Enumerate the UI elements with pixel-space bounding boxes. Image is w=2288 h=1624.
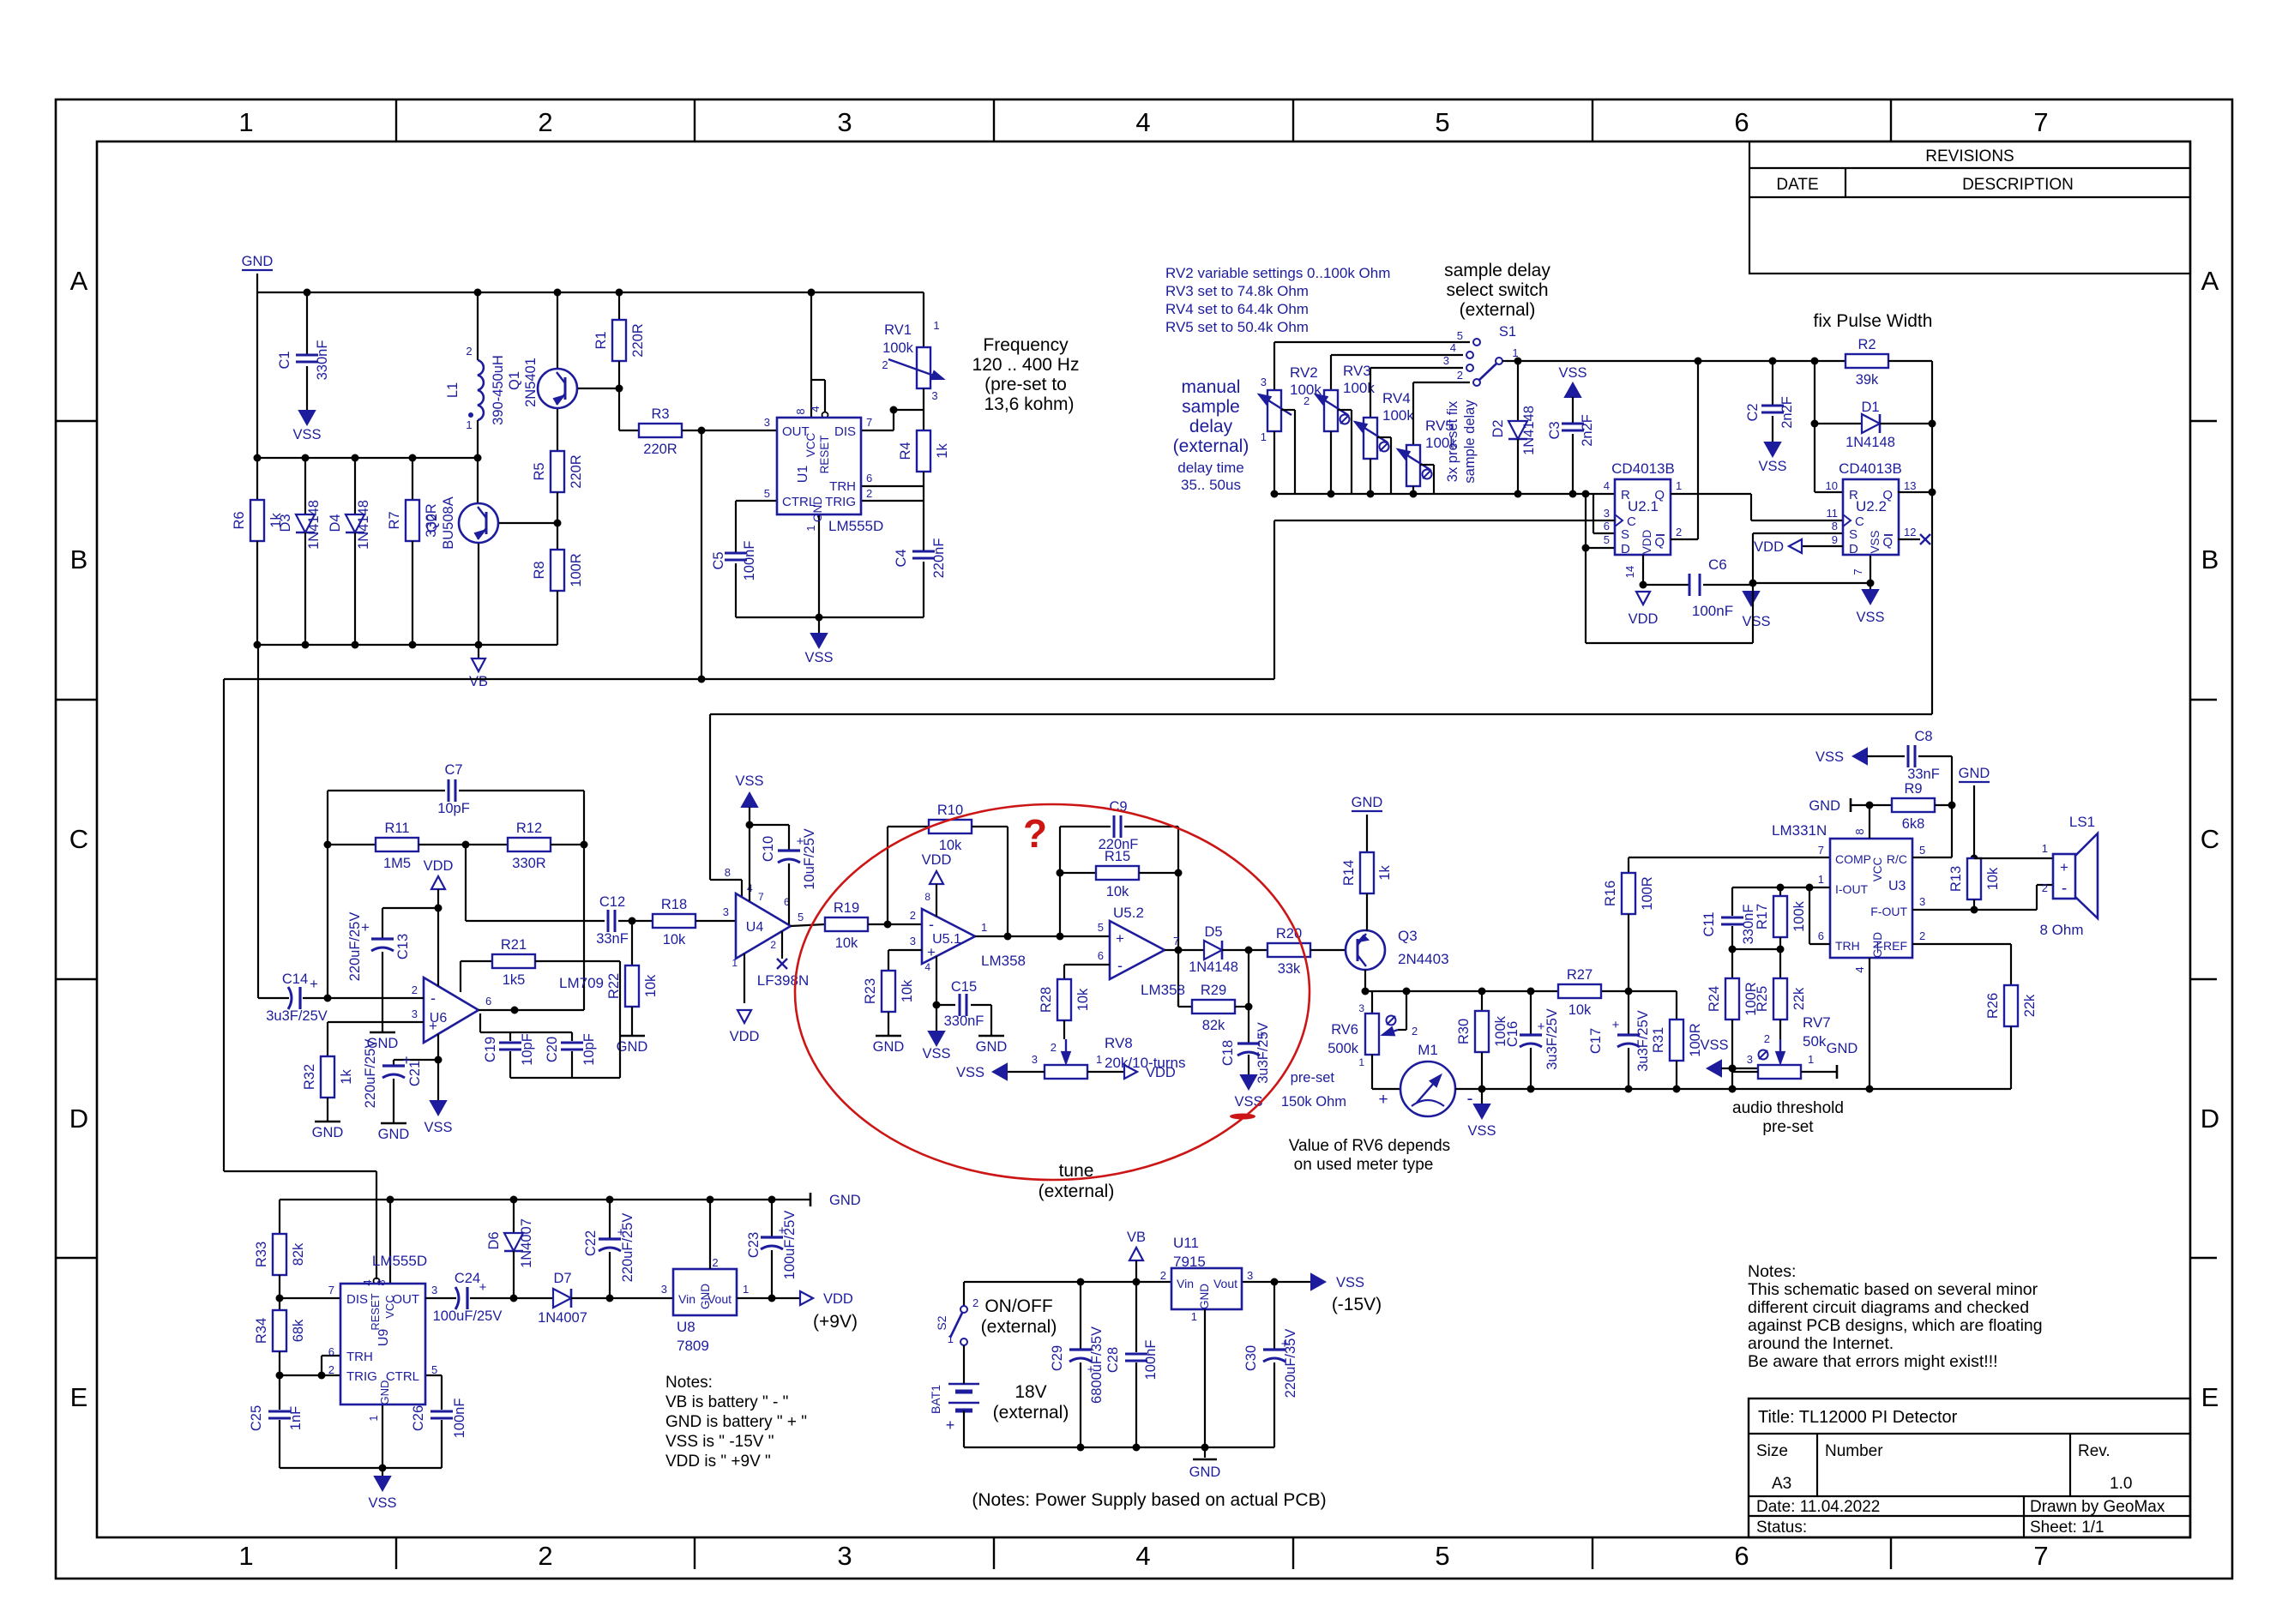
svg-text:7: 7 xyxy=(1851,568,1864,574)
svg-text:D3: D3 xyxy=(278,514,293,532)
svg-text:C13: C13 xyxy=(395,934,411,959)
svg-text:2: 2 xyxy=(1304,394,1310,407)
svg-text:U3: U3 xyxy=(1888,879,1906,893)
svg-text:10k: 10k xyxy=(663,932,686,947)
svg-text:Notes:: Notes: xyxy=(665,1374,713,1392)
svg-text:DATE: DATE xyxy=(1776,176,1818,194)
svg-text:Vin: Vin xyxy=(1177,1277,1194,1290)
svg-text:+: + xyxy=(797,834,804,849)
svg-text:2: 2 xyxy=(770,939,776,951)
svg-text:LM555D: LM555D xyxy=(828,518,883,534)
svg-text:6: 6 xyxy=(1604,520,1610,532)
svg-text:LM331N: LM331N xyxy=(1772,822,1827,839)
svg-text:1: 1 xyxy=(1358,1056,1364,1068)
svg-text:R8: R8 xyxy=(532,561,547,579)
svg-text:4: 4 xyxy=(1450,341,1456,354)
svg-text:5: 5 xyxy=(1604,533,1610,546)
svg-text:Q1: Q1 xyxy=(507,371,522,390)
svg-text:7: 7 xyxy=(1173,935,1179,947)
svg-text:D: D xyxy=(2201,1104,2219,1134)
svg-text:U8: U8 xyxy=(677,1319,695,1335)
svg-text:R16: R16 xyxy=(1603,881,1618,906)
svg-text:D2: D2 xyxy=(1490,419,1506,437)
svg-text:D4: D4 xyxy=(328,514,343,532)
svg-text:VSS: VSS xyxy=(956,1065,984,1080)
svg-text:Date: 11.04.2022: Date: 11.04.2022 xyxy=(1756,1498,1880,1516)
svg-text:GND: GND xyxy=(617,1039,648,1055)
svg-text:LF398N: LF398N xyxy=(757,972,809,989)
svg-text:6800uF/35V: 6800uF/35V xyxy=(1089,1326,1105,1404)
svg-text:CD4013B: CD4013B xyxy=(1839,460,1902,477)
svg-text:LS1: LS1 xyxy=(2069,814,2095,830)
svg-text:3: 3 xyxy=(1261,376,1267,388)
svg-text:2: 2 xyxy=(1457,369,1463,382)
svg-text:5: 5 xyxy=(764,487,770,500)
svg-text:22k: 22k xyxy=(2022,994,2038,1017)
svg-text:330R: 330R xyxy=(512,856,546,871)
svg-text:(-15V): (-15V) xyxy=(1332,1295,1382,1314)
svg-text:R26: R26 xyxy=(1985,993,2001,1019)
svg-text:-: - xyxy=(1117,957,1123,974)
svg-text:VSS: VSS xyxy=(1856,610,1884,625)
svg-text:7: 7 xyxy=(758,891,764,903)
svg-text:R33: R33 xyxy=(254,1242,269,1267)
svg-text:4: 4 xyxy=(1135,1541,1150,1571)
svg-text:U5.1: U5.1 xyxy=(932,932,961,947)
svg-text:U9: U9 xyxy=(376,1329,391,1347)
svg-text:I-REF: I-REF xyxy=(1876,939,1907,953)
svg-text:VDD: VDD xyxy=(1629,611,1659,627)
svg-text:(+9V): (+9V) xyxy=(813,1312,858,1332)
svg-text:pre-set: pre-set xyxy=(1291,1070,1335,1086)
svg-text:C: C xyxy=(2201,824,2219,854)
svg-text:LM358: LM358 xyxy=(981,953,1026,969)
svg-text:D1: D1 xyxy=(1861,400,1879,415)
svg-text:GND: GND xyxy=(378,1127,410,1142)
svg-text:9: 9 xyxy=(1832,533,1838,546)
svg-text:6: 6 xyxy=(866,472,872,484)
svg-text:Status:: Status: xyxy=(1756,1519,1807,1537)
svg-text:5: 5 xyxy=(1098,921,1104,934)
svg-text:GND is battery " + ": GND is battery " + " xyxy=(665,1413,807,1431)
svg-text:R14: R14 xyxy=(1341,860,1357,886)
svg-text:2: 2 xyxy=(412,983,418,996)
svg-text:100R: 100R xyxy=(1640,876,1655,911)
svg-text:D: D xyxy=(1621,542,1630,556)
svg-text:1: 1 xyxy=(743,1283,749,1296)
svg-text:C16: C16 xyxy=(1505,1021,1520,1047)
svg-text:100k: 100k xyxy=(882,340,914,356)
svg-text:C11: C11 xyxy=(1701,911,1717,936)
svg-text:VSS: VSS xyxy=(1558,365,1587,381)
svg-text:GND: GND xyxy=(378,1380,391,1405)
svg-text:6: 6 xyxy=(485,995,491,1007)
svg-text:7: 7 xyxy=(328,1284,334,1296)
svg-text:A3: A3 xyxy=(1772,1475,1791,1493)
svg-text:R30: R30 xyxy=(1456,1019,1472,1044)
svg-text:(external): (external) xyxy=(1460,300,1536,320)
svg-text:This schematic based on severa: This schematic based on several minor xyxy=(1748,1280,2038,1299)
svg-text:11: 11 xyxy=(1827,507,1839,520)
svg-text:C26: C26 xyxy=(411,1405,426,1431)
svg-text:13,6 kohm): 13,6 kohm) xyxy=(984,394,1074,414)
svg-text:6: 6 xyxy=(1818,929,1824,942)
svg-text:7: 7 xyxy=(1818,844,1824,857)
svg-text:33nF: 33nF xyxy=(596,931,629,947)
svg-text:C6: C6 xyxy=(1708,556,1727,573)
svg-text:(external): (external) xyxy=(993,1403,1069,1423)
svg-text:8: 8 xyxy=(1832,520,1838,532)
svg-text:1: 1 xyxy=(1818,873,1824,886)
svg-text:VSS: VSS xyxy=(1467,1123,1496,1139)
svg-text:1k: 1k xyxy=(339,1069,354,1085)
svg-text:+: + xyxy=(1612,1018,1620,1032)
svg-text:C20: C20 xyxy=(545,1037,560,1062)
svg-text:220R: 220R xyxy=(630,323,646,358)
svg-text:2N5401: 2N5401 xyxy=(523,358,539,407)
svg-text:2N4403: 2N4403 xyxy=(1398,951,1449,967)
svg-text:COMP: COMP xyxy=(1835,852,1871,866)
svg-text:4: 4 xyxy=(1135,107,1150,137)
svg-text:VSS is " -15V ": VSS is " -15V " xyxy=(665,1433,774,1451)
svg-text:-: - xyxy=(929,916,934,933)
svg-text:R7: R7 xyxy=(387,511,402,529)
svg-text:C23: C23 xyxy=(746,1232,762,1258)
svg-text:+: + xyxy=(946,1416,955,1434)
svg-text:R9: R9 xyxy=(1904,781,1922,797)
svg-text:3: 3 xyxy=(764,416,770,429)
svg-text:7: 7 xyxy=(866,416,872,429)
svg-text:VSS: VSS xyxy=(1336,1275,1364,1290)
svg-text:10pF: 10pF xyxy=(437,801,470,816)
svg-text:1: 1 xyxy=(1676,479,1682,492)
svg-text:-: - xyxy=(1467,1089,1473,1109)
svg-text:VDD is " +9V ": VDD is " +9V " xyxy=(665,1453,771,1471)
svg-text:?: ? xyxy=(1023,811,1047,856)
svg-text:R15: R15 xyxy=(1105,849,1130,864)
svg-text:VSS: VSS xyxy=(1758,459,1786,474)
svg-text:1: 1 xyxy=(804,525,817,531)
svg-text:R34: R34 xyxy=(254,1318,269,1344)
svg-text:6k8: 6k8 xyxy=(1902,816,1925,832)
svg-text:I-OUT: I-OUT xyxy=(1835,882,1869,896)
svg-text:3: 3 xyxy=(931,389,937,402)
svg-text:(external): (external) xyxy=(1173,436,1249,456)
svg-text:82k: 82k xyxy=(1202,1018,1225,1033)
svg-text:VSS: VSS xyxy=(1815,749,1844,765)
svg-text:1: 1 xyxy=(981,921,987,934)
svg-text:3: 3 xyxy=(1358,1002,1364,1014)
svg-text:VSS: VSS xyxy=(368,1495,396,1511)
svg-text:22k: 22k xyxy=(1791,987,1807,1010)
svg-text:VDD: VDD xyxy=(922,852,952,868)
svg-text:3: 3 xyxy=(661,1283,667,1296)
svg-text:2: 2 xyxy=(1412,1025,1418,1038)
svg-text:100nF: 100nF xyxy=(742,541,757,581)
svg-text:LM358: LM358 xyxy=(1141,982,1185,998)
svg-text:delay: delay xyxy=(1189,417,1233,436)
svg-text:1: 1 xyxy=(238,107,253,137)
svg-text:TRH: TRH xyxy=(829,479,856,494)
svg-text:S1: S1 xyxy=(1499,324,1516,340)
svg-text:U11: U11 xyxy=(1173,1235,1199,1251)
svg-text:14: 14 xyxy=(1623,566,1636,578)
svg-text:TRIG: TRIG xyxy=(825,495,856,509)
svg-text:330R: 330R xyxy=(424,503,439,538)
svg-text:S: S xyxy=(1849,527,1857,542)
svg-text:R5: R5 xyxy=(532,462,547,480)
svg-text:R24: R24 xyxy=(1707,986,1722,1012)
svg-text:100R: 100R xyxy=(569,553,584,587)
svg-text:fix Pulse Width: fix Pulse Width xyxy=(1814,311,1933,331)
svg-text:1: 1 xyxy=(1096,1053,1102,1066)
svg-text:100uF/25V: 100uF/25V xyxy=(433,1308,503,1324)
svg-text:-: - xyxy=(431,989,436,1007)
svg-text:7915: 7915 xyxy=(1173,1254,1206,1270)
svg-text:VSS: VSS xyxy=(1700,1038,1728,1053)
svg-text:3: 3 xyxy=(837,107,852,137)
svg-text:Sheet: 1/1: Sheet: 1/1 xyxy=(2030,1519,2104,1537)
svg-text:500k: 500k xyxy=(1328,1041,1359,1056)
svg-text:1M5: 1M5 xyxy=(383,856,411,871)
svg-text:DESCRIPTION: DESCRIPTION xyxy=(1962,176,2074,194)
svg-text:1.0: 1.0 xyxy=(2110,1475,2132,1493)
svg-text:10k: 10k xyxy=(1568,1002,1592,1018)
svg-text:Size: Size xyxy=(1756,1442,1788,1460)
svg-text:U1: U1 xyxy=(796,466,810,484)
svg-text:C7: C7 xyxy=(444,762,462,778)
svg-text:GND: GND xyxy=(242,254,274,269)
svg-text:TRIG: TRIG xyxy=(346,1369,377,1384)
svg-text:RV1: RV1 xyxy=(884,322,912,338)
svg-text:(external): (external) xyxy=(981,1317,1057,1337)
svg-text:5: 5 xyxy=(798,911,804,923)
svg-text:1: 1 xyxy=(1808,1053,1814,1066)
svg-text:C3: C3 xyxy=(1547,421,1562,439)
svg-text:7809: 7809 xyxy=(677,1338,709,1354)
svg-text:1N4148: 1N4148 xyxy=(1845,435,1895,450)
svg-text:D: D xyxy=(69,1104,88,1134)
svg-text:+: + xyxy=(402,1052,411,1068)
svg-text:C17: C17 xyxy=(1588,1028,1604,1054)
svg-text:manual: manual xyxy=(1182,377,1241,397)
svg-text:10k: 10k xyxy=(1106,884,1129,899)
svg-text:B: B xyxy=(2201,544,2219,574)
svg-text:150k Ohm: 150k Ohm xyxy=(1281,1094,1346,1110)
svg-text:3u3F/25V: 3u3F/25V xyxy=(266,1008,328,1024)
svg-text:GND: GND xyxy=(1959,766,1990,781)
svg-text:C12: C12 xyxy=(599,894,625,910)
svg-text:TRH: TRH xyxy=(1835,939,1860,953)
svg-text:R/C: R/C xyxy=(1887,852,1907,866)
svg-text:C8: C8 xyxy=(1914,729,1932,744)
svg-text:2: 2 xyxy=(910,909,916,922)
svg-text:RV3 set to 74.8k Ohm: RV3 set to 74.8k Ohm xyxy=(1165,283,1309,299)
svg-text:Be aware that errors might exi: Be aware that errors might exist!!! xyxy=(1748,1352,1998,1371)
svg-text:LM709: LM709 xyxy=(559,975,604,991)
svg-text:C25: C25 xyxy=(249,1405,264,1431)
svg-text:1: 1 xyxy=(732,957,738,969)
svg-text:3: 3 xyxy=(1443,354,1449,367)
svg-text:-: - xyxy=(2062,880,2067,898)
svg-text:10pF: 10pF xyxy=(581,1033,597,1066)
svg-text:different circuit diagrams and: different circuit diagrams and checked xyxy=(1748,1298,2029,1317)
svg-text:5: 5 xyxy=(1435,1541,1449,1571)
svg-text:R28: R28 xyxy=(1039,987,1054,1013)
svg-text:GND: GND xyxy=(829,1193,861,1208)
svg-text:1N4148: 1N4148 xyxy=(356,500,371,550)
svg-text:Vout: Vout xyxy=(1213,1277,1237,1290)
svg-text:3: 3 xyxy=(431,1284,437,1296)
svg-text:5: 5 xyxy=(1919,844,1925,857)
svg-text:C29: C29 xyxy=(1050,1345,1065,1371)
svg-text:Q3: Q3 xyxy=(1398,928,1418,944)
svg-text:2: 2 xyxy=(328,1363,334,1376)
svg-text:220uF/25V: 220uF/25V xyxy=(347,912,363,982)
svg-text:1: 1 xyxy=(1191,1310,1197,1323)
svg-text:7: 7 xyxy=(2033,1541,2048,1571)
svg-text:33k: 33k xyxy=(1278,961,1301,977)
svg-text:2: 2 xyxy=(712,1256,718,1269)
svg-text:U4: U4 xyxy=(746,920,764,935)
svg-text:1k: 1k xyxy=(1377,865,1393,881)
svg-text:33nF: 33nF xyxy=(1907,767,1940,782)
svg-text:100nF: 100nF xyxy=(452,1398,467,1439)
svg-text:RV4 set to 64.4k Ohm: RV4 set to 64.4k Ohm xyxy=(1165,301,1309,317)
svg-text:VDD: VDD xyxy=(424,858,454,874)
svg-text:D: D xyxy=(1849,542,1858,556)
svg-text:220uF/25V: 220uF/25V xyxy=(363,1039,378,1109)
svg-text:BU508A: BU508A xyxy=(441,496,456,549)
svg-text:C15: C15 xyxy=(951,979,977,995)
svg-text:RV2 variable settings 0..100k: RV2 variable settings 0..100k Ohm xyxy=(1165,265,1390,281)
svg-text:10k: 10k xyxy=(1075,988,1091,1011)
svg-text:TRH: TRH xyxy=(346,1350,373,1364)
svg-text:220uF/35V: 220uF/35V xyxy=(1283,1329,1298,1398)
svg-text:2: 2 xyxy=(882,358,888,371)
svg-text:R2: R2 xyxy=(1857,337,1876,352)
svg-text:1: 1 xyxy=(2042,842,2048,855)
svg-text:3: 3 xyxy=(1247,1269,1253,1282)
svg-text:C30: C30 xyxy=(1243,1345,1259,1371)
svg-text:on used meter type: on used meter type xyxy=(1294,1156,1434,1174)
svg-text:C: C xyxy=(69,824,88,854)
svg-text:10k: 10k xyxy=(835,935,858,951)
svg-text:(Notes: Power Supply based on: (Notes: Power Supply based on actual PCB… xyxy=(972,1490,1326,1510)
svg-text:35.. 50us: 35.. 50us xyxy=(1181,477,1241,493)
svg-text:1: 1 xyxy=(933,319,939,332)
svg-text:GND: GND xyxy=(1198,1284,1211,1309)
svg-text:VB: VB xyxy=(469,674,488,689)
svg-text:VCC: VCC xyxy=(383,1295,396,1318)
svg-text:1N4007: 1N4007 xyxy=(519,1218,534,1268)
svg-text:6: 6 xyxy=(1734,1541,1749,1571)
svg-text:VCC: VCC xyxy=(804,433,817,458)
svg-text:2: 2 xyxy=(1676,526,1682,538)
svg-text:220R: 220R xyxy=(569,454,584,489)
svg-text:RESET: RESET xyxy=(369,1293,382,1330)
svg-text:VSS: VSS xyxy=(1234,1094,1262,1110)
svg-text:2n2F: 2n2F xyxy=(1779,396,1795,429)
svg-text:C14: C14 xyxy=(282,971,308,987)
svg-text:3: 3 xyxy=(1604,507,1610,520)
svg-text:3: 3 xyxy=(723,905,729,918)
svg-text:REVISIONS: REVISIONS xyxy=(1925,147,2014,165)
svg-text:1: 1 xyxy=(367,1415,380,1421)
svg-text:R12: R12 xyxy=(516,821,542,836)
svg-text:sample delay: sample delay xyxy=(1444,261,1550,280)
svg-text:220nF: 220nF xyxy=(931,538,947,579)
svg-text:3: 3 xyxy=(837,1541,852,1571)
svg-text:20k/10-turns: 20k/10-turns xyxy=(1105,1055,1186,1071)
svg-text:Notes:: Notes: xyxy=(1748,1262,1796,1281)
svg-text:Vin: Vin xyxy=(678,1292,695,1306)
svg-text:B: B xyxy=(70,544,88,574)
svg-text:C19: C19 xyxy=(483,1037,498,1062)
svg-text:82k: 82k xyxy=(291,1242,306,1266)
svg-text:1k5: 1k5 xyxy=(503,972,526,988)
svg-text:100nF: 100nF xyxy=(1692,603,1733,619)
svg-text:C10: C10 xyxy=(761,836,776,862)
svg-text:4: 4 xyxy=(1604,479,1610,492)
svg-text:+: + xyxy=(2060,859,2068,875)
svg-text:L1: L1 xyxy=(445,382,461,398)
svg-text:OUT: OUT xyxy=(392,1292,419,1307)
svg-text:U6: U6 xyxy=(430,1011,448,1026)
svg-text:10k: 10k xyxy=(1985,867,2001,890)
svg-text:VDD: VDD xyxy=(1754,539,1784,555)
svg-text:100nF: 100nF xyxy=(1143,1340,1159,1380)
svg-text:against PCB designs, which are: against PCB designs, which are floating xyxy=(1748,1316,2043,1335)
svg-text:1N4007: 1N4007 xyxy=(538,1310,587,1326)
svg-text:A: A xyxy=(70,266,88,296)
svg-text:+: + xyxy=(1258,1028,1266,1043)
svg-text:12: 12 xyxy=(1904,526,1916,538)
svg-text:8: 8 xyxy=(794,408,807,414)
svg-text:C2: C2 xyxy=(1745,403,1761,421)
svg-text:VSS: VSS xyxy=(735,773,763,789)
svg-text:220R: 220R xyxy=(643,442,677,457)
svg-text:3: 3 xyxy=(1747,1053,1753,1066)
svg-text:GND: GND xyxy=(1189,1465,1221,1480)
svg-text:2: 2 xyxy=(866,487,872,500)
svg-text:4: 4 xyxy=(361,1279,374,1285)
svg-text:VSS: VSS xyxy=(292,427,321,442)
svg-text:C1: C1 xyxy=(277,351,292,369)
svg-text:100k: 100k xyxy=(1791,900,1807,932)
svg-text:120 .. 400 Hz: 120 .. 400 Hz xyxy=(972,355,1080,375)
svg-text:+: + xyxy=(1378,1091,1388,1109)
svg-text:R4: R4 xyxy=(898,442,913,460)
svg-text:50k: 50k xyxy=(1803,1033,1827,1050)
svg-text:1N4148: 1N4148 xyxy=(1189,959,1238,975)
svg-text:5: 5 xyxy=(1435,107,1449,137)
svg-text:Value of RV6 depends: Value of RV6 depends xyxy=(1289,1137,1450,1155)
svg-text:5: 5 xyxy=(1457,329,1463,342)
svg-text:2n2F: 2n2F xyxy=(1580,414,1595,447)
svg-text:390-450uH: 390-450uH xyxy=(491,355,506,425)
svg-text:1N4148: 1N4148 xyxy=(306,500,322,550)
svg-text:BAT1: BAT1 xyxy=(929,1385,942,1414)
svg-text:R19: R19 xyxy=(834,900,859,916)
svg-text:10uF/25V: 10uF/25V xyxy=(802,828,817,890)
svg-text:F-OUT: F-OUT xyxy=(1870,905,1907,918)
svg-text:2: 2 xyxy=(1764,1032,1770,1045)
svg-text:(external): (external) xyxy=(1039,1182,1115,1201)
svg-text:GND: GND xyxy=(1809,798,1840,814)
svg-text:D5: D5 xyxy=(1204,924,1222,940)
svg-text:C5: C5 xyxy=(711,551,726,569)
